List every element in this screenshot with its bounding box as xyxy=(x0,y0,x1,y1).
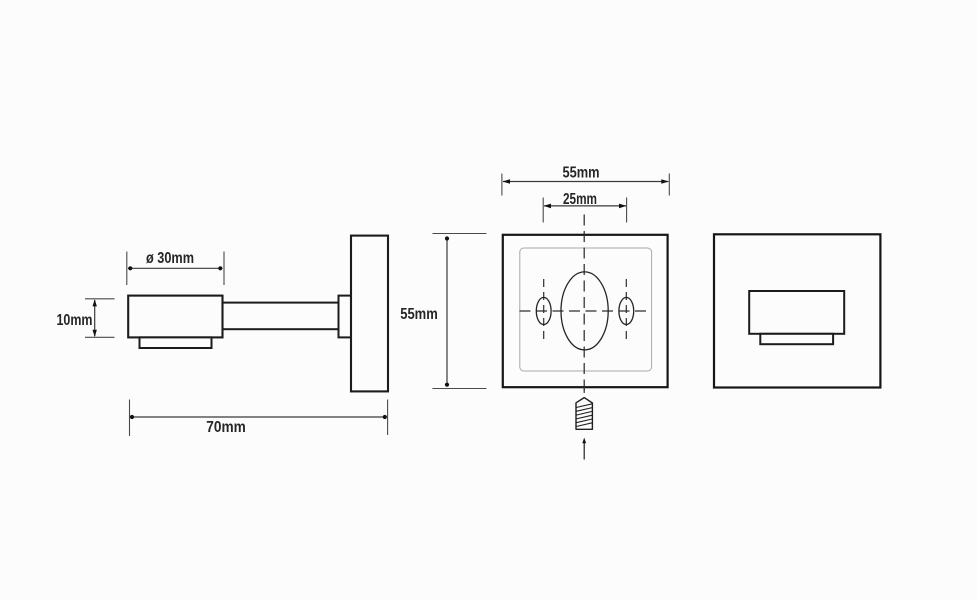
grub screw body xyxy=(576,398,592,430)
svg-text:25mm: 25mm xyxy=(563,191,597,208)
dimension 25mm extension ticks xyxy=(543,198,626,223)
dimension 70mm line with end dots xyxy=(130,415,387,419)
dimension 25mm line with arrows xyxy=(544,204,627,209)
dimension 70mm extension lines xyxy=(130,400,388,437)
dimension 55mm (side view) extension lines xyxy=(433,234,487,389)
dimension 55mm (front view) line with arrows xyxy=(503,179,669,184)
side view: wall plate xyxy=(351,236,388,392)
front view: faceplate square xyxy=(503,235,668,387)
svg-text:55mm: 55mm xyxy=(400,306,438,323)
dimension ø30mm line with end dots xyxy=(128,266,223,270)
svg-text:70mm: 70mm xyxy=(206,419,246,436)
front view: vertical centerline (dashed) xyxy=(583,215,585,397)
back view: faceplate square xyxy=(714,234,880,387)
front view: right hole centerline (dashed) xyxy=(625,279,627,344)
side view: arm tube xyxy=(223,303,339,330)
front view: left hole centerline (dashed) xyxy=(543,279,545,344)
dimension ø30mm extension lines xyxy=(127,252,224,286)
front view: center ellipse xyxy=(561,272,608,350)
grub screw threads xyxy=(576,404,592,427)
dimension 10mm extension lines xyxy=(85,299,115,338)
front view: inner outline xyxy=(520,248,652,371)
svg-text:55mm: 55mm xyxy=(563,165,600,182)
dimension 55mm (side view) line with end dots xyxy=(445,236,449,386)
front view: horizontal centerline (dashed) xyxy=(520,310,651,312)
svg-text:ø 30mm: ø 30mm xyxy=(146,250,194,267)
dimension 10mm line with arrows xyxy=(93,299,97,337)
front view: right screw hole xyxy=(619,297,634,324)
mounting direction arrow xyxy=(582,438,586,460)
front view: left screw hole xyxy=(536,297,551,324)
side view: collar at wall plate xyxy=(339,296,352,338)
dimension 55mm (front view) extension ticks xyxy=(502,174,669,196)
screw centerline stub (dashed) xyxy=(583,389,585,397)
side view: holder lip xyxy=(140,337,212,348)
side view: holder block xyxy=(128,296,222,338)
svg-text:10mm: 10mm xyxy=(57,312,93,329)
back view: holder block front xyxy=(749,291,844,334)
back view: holder lip front xyxy=(760,334,833,344)
